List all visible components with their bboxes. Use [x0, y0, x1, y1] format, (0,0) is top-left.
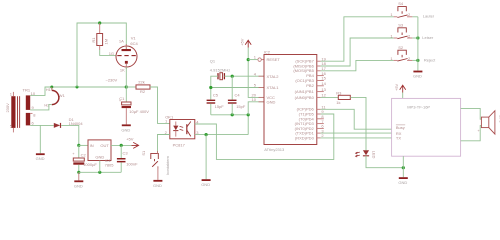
crystal Q1 — [210, 59, 230, 80]
svg-text:ATtiny2313: ATtiny2313 — [264, 147, 285, 152]
wire ground rail — [79, 171, 121, 173]
wire H2 to TR1 pin9 — [30, 105, 52, 110]
resistor R2 — [126, 80, 150, 95]
wire S2 to gnd rail — [412, 59, 418, 61]
wire C2 bottom to ground rail — [78, 165, 80, 173]
wire MCU PD6 to module BUSY — [321, 109, 392, 129]
svg-text:GND: GND — [201, 182, 210, 187]
wire MCU PD0 to module TX — [321, 137, 392, 139]
IC2 right-side pin stubs and numbers — [317, 56, 327, 138]
ground under opto — [201, 135, 210, 188]
supply +5V arrow for MCU — [240, 38, 252, 47]
junction +5V node after regulator — [120, 144, 123, 147]
svg-text:(OC1)PB3: (OC1)PB3 — [295, 78, 314, 83]
pushbutton S3 — [390, 22, 412, 38]
svg-text:PC817: PC817 — [173, 143, 186, 148]
wire MCU GND pin to rail — [248, 102, 264, 115]
svg-text:GND: GND — [121, 127, 130, 132]
wire buttons ground rail — [417, 17, 419, 71]
junction ground rail left — [77, 171, 80, 174]
microcontroller IC2 ATtiny2313 — [252, 49, 317, 152]
junction cathode node — [125, 85, 128, 88]
svg-text:15: 15 — [321, 76, 326, 81]
svg-text:1k: 1k — [336, 100, 340, 105]
wire +5V to module VCC — [402, 93, 404, 99]
wire TR1 pin6 to D1 anode — [30, 124, 54, 126]
IC2 left pin stubs — [259, 60, 265, 102]
svg-text:S2: S2 — [398, 45, 404, 50]
svg-text:W1: W1 — [59, 93, 66, 98]
svg-text:LED: LED — [372, 151, 377, 159]
IC2 right-side pin names — [293, 59, 314, 141]
svg-text:C1: C1 — [119, 96, 125, 101]
wire input node down to C2 — [78, 145, 80, 158]
junction R1 top — [98, 21, 101, 24]
svg-text:S4: S4 — [398, 1, 404, 6]
svg-text:GND: GND — [413, 74, 422, 79]
svg-text:1M: 1M — [104, 39, 109, 45]
wire net heater/cathode main run — [52, 86, 127, 88]
svg-text:GND: GND — [153, 183, 162, 188]
ground under module — [398, 168, 407, 186]
svg-text:100nF: 100nF — [126, 162, 138, 167]
LED D2 — [356, 150, 377, 158]
svg-text:Reject: Reject — [424, 58, 436, 63]
RESET pin inversion bubble — [258, 58, 261, 61]
MP3 module MP3-TF-16P — [392, 98, 461, 156]
svg-text:XTAL2: XTAL2 — [267, 74, 280, 79]
junction regulator input node — [77, 144, 80, 147]
svg-text:Q1: Q1 — [210, 59, 216, 64]
wire PB6 to S3 — [321, 38, 394, 66]
junction C4 at rail — [231, 113, 234, 116]
wire IC1 GND pin to rail — [99, 161, 101, 173]
svg-text:7805: 7805 — [105, 162, 115, 167]
pushbutton S2 — [390, 45, 412, 61]
supply +5V arrow for module — [394, 83, 406, 92]
wire C4 drop — [231, 76, 233, 99]
svg-text:R2: R2 — [140, 89, 146, 94]
resistor R1 — [91, 23, 109, 50]
svg-text:kontaktern: kontaktern — [165, 156, 170, 175]
svg-text:+5V: +5V — [394, 83, 399, 91]
svg-text:10: 10 — [252, 97, 257, 102]
svg-text:GND: GND — [74, 183, 83, 188]
svg-text:GND: GND — [36, 156, 45, 161]
wire crystal left / XTAL1 / C5 node — [211, 76, 218, 99]
svg-text:12: 12 — [321, 93, 326, 98]
wire D1 cathode to regulator input node — [61, 125, 79, 145]
svg-text:H2: H2 — [44, 103, 50, 108]
wire crystal right to XTAL2 — [224, 75, 264, 77]
svg-text:13: 13 — [321, 87, 326, 92]
wire to RESET pin bubble — [248, 59, 257, 61]
wire gnd run up to capacitor rail — [247, 115, 249, 135]
svg-text:C2: C2 — [81, 153, 87, 158]
svg-text:1A: 1A — [119, 39, 124, 44]
svg-text:PB2: PB2 — [306, 83, 314, 88]
svg-text:22k: 22k — [138, 80, 144, 85]
svg-text:(RXD)PD0: (RXD)PD0 — [295, 135, 315, 140]
wire C3 bottom to ground rail — [120, 162, 122, 172]
junction grid-loop rail joins heater line — [76, 86, 79, 89]
svg-text:OUT: OUT — [100, 143, 109, 148]
svg-text:MP3-TF-16P: MP3-TF-16P — [407, 105, 430, 110]
ground under C1 — [121, 108, 130, 132]
wire net heater: TR1 pin10 to node H1 — [30, 87, 52, 95]
svg-text:C4: C4 — [235, 93, 241, 98]
wire input node to IC1 IN — [79, 144, 88, 146]
svg-text:R3: R3 — [336, 91, 342, 96]
svg-text:S3: S3 — [398, 22, 404, 27]
svg-text:C5: C5 — [213, 93, 219, 98]
svg-text:230V: 230V — [5, 103, 10, 113]
capacitor C4 — [228, 93, 246, 115]
svg-text:XTAL1: XTAL1 — [267, 85, 280, 90]
wire grid-loop top — [77, 23, 126, 87]
wire OK1 collector pin4 to MCU PD5 — [195, 114, 334, 159]
svg-text:(AIN0)PB0: (AIN0)PB0 — [295, 95, 315, 100]
svg-text:1K: 1K — [120, 68, 125, 73]
wire OK1 cathode pin2 to switch S1 — [158, 135, 170, 154]
wire cathode node down to C1 — [125, 87, 127, 102]
svg-text:1G: 1G — [109, 51, 114, 56]
junction opto gnd node — [205, 133, 208, 136]
junction at H1 tap — [50, 86, 53, 89]
junction reset tap — [247, 58, 250, 61]
wire XTAL1 pin to node — [211, 87, 264, 89]
svg-text:TR1: TR1 — [23, 87, 31, 92]
wire S4 to gnd rail — [412, 16, 418, 18]
transformer TR1 — [5, 87, 36, 132]
svg-text:IN: IN — [90, 143, 94, 148]
speaker SP1 — [477, 111, 500, 134]
wire module SPK- to speaker — [461, 126, 482, 141]
svg-text:~230V: ~230V — [106, 78, 118, 83]
ground under transformer — [36, 153, 45, 161]
switch S1 — [141, 150, 170, 175]
svg-text:Leiser: Leiser — [422, 35, 434, 40]
resistor R3 — [321, 91, 351, 105]
svg-text:GND: GND — [95, 154, 104, 159]
svg-text:C3: C3 — [123, 150, 129, 155]
junction gnd drop at rail — [247, 113, 250, 116]
svg-text:GND: GND — [398, 180, 407, 185]
wire IC1 OUT to +5V node — [111, 144, 132, 146]
capacitor C5 — [207, 93, 225, 115]
ground under buttons — [413, 71, 422, 79]
wire +5V rail down to VCC — [248, 48, 264, 98]
svg-text:15pF: 15pF — [215, 104, 225, 109]
junction S3 at rail — [416, 36, 419, 39]
junction S2 at rail — [416, 59, 419, 62]
heater W1 — [44, 87, 65, 108]
svg-text:IC2: IC2 — [264, 49, 271, 54]
svg-text:+5V: +5V — [126, 136, 134, 141]
svg-text:Lauter: Lauter — [423, 14, 435, 19]
tube V1 6C4 triode — [109, 35, 139, 72]
ground under S1 — [153, 167, 162, 188]
svg-text:TX: TX — [396, 136, 401, 141]
svg-text:S1: S1 — [141, 150, 146, 156]
supply +5V arrow (right) — [126, 136, 138, 148]
wire tube cathode down to node — [125, 67, 127, 87]
junction crystal right / C4 — [231, 75, 234, 78]
capacitor C1 — [119, 96, 149, 114]
svg-text:4.9152MHz: 4.9152MHz — [210, 67, 230, 72]
svg-text:R1: R1 — [91, 37, 96, 43]
svg-text:H1: H1 — [46, 87, 52, 92]
wire R1 bottom to tube grid — [100, 50, 117, 55]
svg-text:1000µF: 1000µF — [83, 162, 97, 167]
capacitor C3 — [117, 150, 138, 166]
svg-text:6C4: 6C4 — [130, 41, 138, 46]
pushbutton S4 — [390, 1, 412, 17]
svg-text:RESET: RESET — [267, 57, 281, 62]
wire S3 to gnd rail — [412, 37, 418, 39]
wire PB7 to S4 — [321, 17, 394, 61]
junction XTAL1 node — [209, 86, 212, 89]
svg-text:15pF: 15pF — [236, 104, 246, 109]
wire R3 to LED — [350, 97, 366, 150]
svg-text:(AIN1)PB1: (AIN1)PB1 — [295, 89, 315, 94]
junction module gnd node — [402, 166, 405, 169]
optocoupler OK1 PC817 — [165, 114, 200, 147]
junction IC1 gnd at rail — [98, 171, 101, 174]
diode D1 — [54, 117, 84, 128]
wire PB5 to S2 — [321, 60, 394, 70]
wire OK1 emitter pin3 to gnd node — [195, 134, 248, 136]
wire module SPK+ to speaker — [461, 108, 482, 119]
voltage regulator IC1 7805 — [88, 140, 114, 168]
wire module gnd pin — [402, 156, 404, 168]
svg-text:GND: GND — [267, 99, 276, 104]
wire MCU PD1 to module RX — [321, 132, 392, 134]
svg-text:+5V: +5V — [240, 38, 245, 46]
wire R2 to OK1 anode pin1 — [150, 87, 170, 123]
wire capacitor ground rail — [211, 114, 248, 116]
svg-text:14: 14 — [321, 81, 326, 86]
wire branch to transformer ground — [39, 125, 41, 153]
svg-text:V1: V1 — [131, 35, 137, 40]
capacitor C2 — [72, 151, 97, 167]
wire LED to module gnd node — [366, 156, 403, 168]
wire +5V node down to C3 — [120, 145, 122, 158]
ground under C2 — [74, 172, 83, 188]
svg-text:Busy: Busy — [396, 125, 405, 130]
svg-text:10µF 400V: 10µF 400V — [129, 109, 149, 114]
